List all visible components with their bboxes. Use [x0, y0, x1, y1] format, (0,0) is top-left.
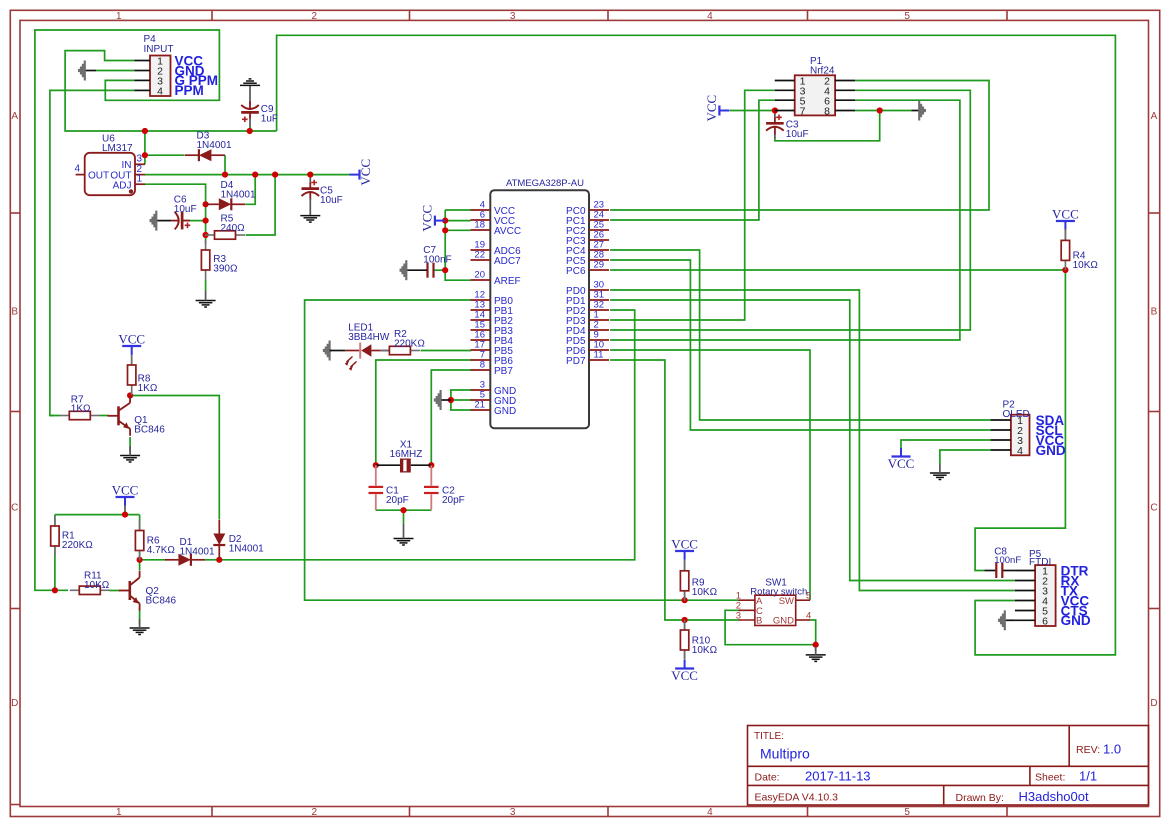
VCC flag at OUT rail — [350, 159, 374, 186]
capacitor C5 10uF — [302, 183, 320, 200]
wire PD7 to SW1 pin3 / R10 node — [610, 360, 738, 620]
resistor R7 1K — [60, 411, 100, 419]
svg-text:GND: GND — [494, 406, 516, 417]
wire Q2 VCC rail — [55, 514, 140, 516]
capacitor C2 20pF — [424, 465, 439, 510]
wire U6 OUT rail to VCC flag — [145, 174, 350, 176]
wire D3 anode down to OUT rail — [224, 155, 226, 174]
svg-text:20pF: 20pF — [442, 495, 465, 506]
wire GND pins 3-21 tie — [451, 390, 471, 410]
svg-text:VCC: VCC — [888, 456, 915, 471]
wire PD5 to P1 pin6 — [610, 100, 960, 340]
ground arrow at C7 — [401, 260, 407, 280]
diode D3 1N4001 (cathode left) — [185, 149, 225, 161]
svg-text:PC6: PC6 — [566, 266, 586, 277]
C8 plates — [996, 563, 1002, 578]
wire to pin6 — [445, 220, 470, 222]
frame zone numbers — [116, 11, 910, 818]
svg-text:16MHZ: 16MHZ — [390, 449, 423, 460]
wire P1 pin8 to ground arrow — [855, 110, 911, 112]
wire P4 pin3 G_PPM loop to R11/Q2 base node — [35, 30, 220, 590]
junction R1 bottom / Q2 base — [52, 587, 58, 593]
diode D1 1N4001 — [165, 554, 205, 566]
wire PB0 to SW1 A / R9 node — [305, 300, 739, 600]
svg-text:TITLE:: TITLE: — [754, 731, 784, 742]
svg-text:100nF: 100nF — [994, 555, 1021, 566]
svg-text:7: 7 — [800, 106, 806, 118]
wire C9 to VCC-in node — [249, 127, 251, 132]
svg-text:Date:: Date: — [755, 772, 780, 784]
resistor R3 390 — [201, 240, 209, 280]
junction R9 bottom / SW1 A — [682, 597, 688, 603]
svg-text:4: 4 — [1017, 445, 1023, 457]
svg-text:A: A — [1151, 111, 1158, 122]
VCC flag at chip left — [419, 205, 445, 232]
svg-text:VCC: VCC — [419, 205, 434, 232]
svg-text:1KΩ: 1KΩ — [138, 383, 158, 394]
svg-text:220KΩ: 220KΩ — [394, 339, 425, 350]
wire R5 right up to OUT rail — [246, 175, 276, 235]
LED LED1 3BB4HW — [331, 343, 389, 371]
svg-text:2017-11-13: 2017-11-13 — [805, 769, 871, 784]
junction R6/D1/Q2 collector — [137, 557, 143, 563]
VCC flag above Q2 rail — [112, 483, 139, 506]
svg-text:100nF: 100nF — [423, 255, 451, 266]
svg-text:1N4001: 1N4001 — [221, 189, 256, 200]
title block texts — [754, 731, 1121, 804]
junction R4 bottom / PC6 — [1062, 267, 1068, 273]
resistor R9 10K — [680, 561, 688, 601]
svg-text:PD7: PD7 — [566, 356, 586, 367]
ground arrow at P1 pin8 — [911, 110, 919, 112]
VCC flag below P2 pin3 — [888, 448, 915, 471]
svg-text:VCC: VCC — [358, 159, 373, 186]
MCU right pins — [566, 200, 609, 368]
wire PB5 to R2 — [421, 350, 472, 352]
resistor R1 220K — [51, 516, 59, 556]
resistor R8 1K — [128, 355, 136, 395]
junction U6 IN / P4 VCC — [142, 128, 148, 134]
ground under C5 — [300, 216, 320, 223]
junction C7/AREF — [442, 267, 448, 273]
wire VCC flag to P1 pin7 — [730, 110, 775, 112]
connector P1 Nrf24 — [775, 75, 855, 117]
svg-text:1uF: 1uF — [261, 114, 278, 125]
MCU left pins — [471, 200, 522, 418]
wire C7 to AREF vertical — [434, 269, 446, 271]
wire VCC-in top rail to P5 FTDI pin4 — [277, 35, 1116, 655]
ground arrow at P5 pin6 — [1005, 619, 1015, 621]
ground arrow at C6 — [151, 211, 157, 231]
svg-text:ADJ: ADJ — [113, 181, 132, 192]
capacitor C3 10uF — [766, 117, 784, 134]
svg-text:1KΩ: 1KΩ — [71, 404, 91, 415]
svg-text:PPM: PPM — [175, 83, 204, 98]
svg-text:3: 3 — [510, 11, 516, 22]
svg-text:10KΩ: 10KΩ — [692, 645, 718, 656]
svg-text:B: B — [11, 307, 18, 318]
wire PC1 to P1 pin5 — [610, 100, 775, 220]
wire P4 pin2 to ground arrow — [96, 70, 135, 72]
junction C5 on OUT — [307, 172, 313, 178]
svg-text:220KΩ: 220KΩ — [62, 540, 93, 551]
wire D3 cathode to IN — [145, 154, 185, 156]
svg-text:4: 4 — [75, 164, 81, 175]
svg-text:B: B — [1151, 307, 1158, 318]
VCC flag above R8 — [118, 332, 145, 355]
wire down to R1 — [54, 515, 56, 526]
wire GND pin5 — [451, 399, 471, 401]
svg-text:Nrf24: Nrf24 — [810, 66, 835, 77]
VCC flag above R4 — [1052, 207, 1079, 230]
svg-text:AVCC: AVCC — [494, 226, 521, 237]
ground under P2 pin4 — [930, 473, 950, 480]
svg-text:4: 4 — [707, 807, 713, 818]
connector P5 FTDI — [1015, 565, 1056, 627]
wire PC0 to P1 pin2 — [610, 81, 989, 211]
svg-text:5: 5 — [904, 807, 910, 818]
junction Q2 VCC rail — [122, 511, 128, 517]
svg-text:OUT: OUT — [88, 170, 109, 181]
wire ground node stem — [815, 645, 817, 651]
wire PB7 down to X1 right — [431, 370, 471, 465]
svg-text:8: 8 — [824, 106, 830, 118]
svg-text:1: 1 — [116, 807, 122, 818]
lead R10 to VCC flag (gray) — [684, 651, 686, 659]
wire R6 bottom to D1 node — [139, 552, 141, 560]
resistor R5 240 — [205, 231, 245, 239]
svg-text:D: D — [1150, 698, 1157, 709]
wire R3 bottom to ground — [205, 280, 207, 291]
svg-text:10KΩ: 10KΩ — [692, 587, 718, 598]
svg-text:20: 20 — [474, 270, 485, 281]
resistor R4 10K — [1061, 230, 1069, 270]
wire PD4 to P1 pin4 — [610, 90, 970, 330]
wire down to R6 — [139, 515, 141, 530]
lead VCC flag to R9 (gray) — [684, 560, 686, 571]
wire C6 to ADJ node — [182, 220, 206, 222]
wire U6 ADJ branch down to R3 — [145, 184, 206, 244]
resistor R6 4.7K — [135, 521, 143, 561]
junction Q1 collector — [127, 392, 133, 398]
wire P4 pin1 VCC-in loop to U6 IN node — [65, 51, 277, 131]
junction C9 — [247, 128, 253, 134]
svg-text:VCC: VCC — [112, 483, 139, 498]
ground arrow symbol P5 — [999, 610, 1005, 630]
svg-text:3: 3 — [510, 807, 516, 818]
junction R5 on OUT — [272, 172, 278, 178]
VCC flag at P1 pin7 — [704, 95, 730, 122]
junction D3 cathode — [142, 152, 148, 158]
svg-text:AREF: AREF — [494, 276, 521, 287]
lead VCC flag to R4 (gray) — [1064, 229, 1066, 240]
ground arrow at GND pins 3/5/21 — [441, 399, 451, 401]
capacitor C8 100nF — [984, 570, 996, 572]
wire PD1 to P5 RX — [610, 300, 1015, 581]
junction GND pins — [448, 397, 454, 403]
svg-text:18: 18 — [474, 220, 485, 231]
wire D1 cathode to D2 node — [204, 559, 219, 561]
svg-text:OLED: OLED — [1003, 409, 1030, 420]
svg-text:Rotary switch: Rotary switch — [750, 586, 807, 597]
svg-text:ADC7: ADC7 — [494, 256, 521, 267]
lead C3 bottom (gray) — [774, 134, 776, 140]
SW1 pin labels (red) — [736, 591, 812, 627]
junction C1-C2 ground — [400, 507, 406, 513]
svg-text:4: 4 — [806, 610, 811, 621]
svg-text:GND: GND — [1061, 613, 1091, 628]
frame zone letters — [11, 111, 1158, 709]
wire PC5 to P2 pin2 SCL — [610, 260, 991, 430]
C7 plates — [428, 263, 434, 278]
wire D1 anode from node — [140, 559, 166, 561]
junction SW1 ground — [813, 642, 819, 648]
lead C9 bottom (gray) — [249, 118, 251, 128]
resistor R2 220K — [380, 346, 420, 354]
ground arrow at P4 pin2 — [85, 70, 96, 72]
svg-text:B: B — [756, 616, 762, 627]
junction D4 on OUT — [252, 172, 258, 178]
svg-text:A: A — [11, 111, 18, 122]
junction D4 anode on ADJ — [203, 201, 209, 207]
wire Q1 emitter to ground — [129, 437, 131, 452]
svg-text:10uF: 10uF — [174, 204, 197, 215]
svg-text:240Ω: 240Ω — [221, 223, 246, 234]
svg-text:8: 8 — [480, 360, 485, 371]
ground arrow symbol GND pins — [435, 390, 441, 410]
wire D4 cathode up to OUT rail — [246, 175, 256, 205]
svg-text:1: 1 — [116, 11, 122, 22]
wire R1 bottom to base node — [54, 547, 56, 591]
svg-text:FTDI: FTDI — [1029, 557, 1051, 568]
wire AVCC/AREF vertical — [445, 210, 470, 280]
capacitor C1 20pF — [369, 465, 384, 510]
svg-text:10uF: 10uF — [320, 195, 343, 206]
wire PC4 to P2 pin1 SDA — [610, 250, 991, 420]
svg-text:GND: GND — [773, 616, 794, 627]
wire Q2 emitter to ground — [139, 608, 141, 624]
wire P2 pin3 to VCC flag — [901, 440, 991, 450]
lead C5 top (gray) — [309, 176, 311, 184]
svg-text:VCC: VCC — [704, 95, 719, 122]
wire PD0 to P5 TX — [610, 290, 1015, 591]
svg-text:390Ω: 390Ω — [213, 264, 238, 275]
svg-text:1N4001: 1N4001 — [229, 544, 264, 555]
svg-text:VCC: VCC — [1052, 207, 1079, 222]
U6 pin names and numbers — [75, 154, 143, 192]
svg-text:3BB4HW: 3BB4HW — [348, 332, 390, 343]
svg-text:ATMEGA328P-AU: ATMEGA328P-AU — [506, 178, 584, 189]
junction VCC flag at chip — [442, 218, 448, 224]
svg-text:LM317: LM317 — [102, 143, 133, 154]
junction R5/R3 on ADJ — [203, 232, 209, 238]
junction C6 on ADJ — [203, 218, 209, 224]
junction R10 top / SW1 B — [682, 617, 688, 623]
crystal X1 16MHZ — [376, 459, 432, 473]
connector P2 OLED — [991, 415, 1030, 458]
svg-text:VCC: VCC — [118, 332, 145, 347]
junction AVCC — [442, 227, 448, 233]
wire node down to Q2 collector — [139, 560, 141, 570]
svg-text:10uF: 10uF — [786, 129, 809, 140]
svg-text:INPUT: INPUT — [144, 44, 174, 55]
resistor R11 10K — [70, 586, 110, 594]
svg-text:GND: GND — [1036, 443, 1066, 458]
capacitor C9 1uF — [241, 101, 259, 118]
junction D3 anode on OUT — [222, 172, 228, 178]
resistor R10 10K — [680, 620, 688, 660]
wire D1/D2 node to PD2 — [219, 310, 634, 560]
junction C3 top — [772, 107, 778, 113]
capacitor C6 10uF (horizontal polarized) — [171, 212, 190, 230]
svg-text:3: 3 — [736, 610, 741, 621]
wire P4 pin4 PPM to R7 — [50, 90, 135, 415]
svg-text:1.0: 1.0 — [1103, 742, 1121, 757]
svg-text:H3adsho0ot: H3adsho0ot — [1019, 789, 1089, 804]
svg-text:VCC: VCC — [671, 537, 698, 552]
transistor Q1 BC846 — [108, 396, 131, 436]
ground under SW1 — [806, 655, 826, 662]
ground arrow symbol P4 — [79, 61, 85, 81]
svg-text:11: 11 — [594, 350, 604, 361]
MCU U? ATMEGA328P-AU body — [490, 190, 589, 428]
svg-text:Sheet:: Sheet: — [1035, 772, 1065, 784]
ground (inverted) above C9 — [240, 79, 260, 86]
wire U6 IN branch — [144, 131, 146, 164]
ground arrow symbol P1 — [919, 101, 925, 121]
junction X1 right / C2 — [428, 462, 434, 468]
svg-text:4: 4 — [707, 11, 713, 22]
wire C3 bottom loop to P1 pin8 node — [775, 111, 880, 141]
wire R11 to Q2 base — [110, 590, 120, 592]
svg-text:21: 21 — [474, 400, 485, 411]
svg-text:22: 22 — [474, 250, 485, 261]
ground under crystal — [394, 539, 414, 546]
wire SW1 pin2 loop to ground node — [725, 610, 816, 644]
svg-text:10KΩ: 10KΩ — [84, 580, 110, 591]
svg-text:REV:: REV: — [1076, 744, 1100, 756]
svg-text:1/1: 1/1 — [1079, 769, 1097, 784]
svg-text:10KΩ: 10KΩ — [1073, 260, 1099, 271]
svg-text:D: D — [11, 698, 18, 709]
ground under Q1 — [120, 456, 140, 463]
svg-text:BC846: BC846 — [134, 425, 165, 436]
junction C3 bottom loop — [877, 107, 883, 113]
svg-text:4: 4 — [157, 86, 163, 98]
lead C5 bottom (gray) — [309, 198, 311, 216]
junction X1 left / C1 — [373, 462, 379, 468]
lead VCC flag to R8 (gray) — [131, 354, 133, 366]
wire Q1 collector to D2 anode — [130, 396, 219, 520]
wire to pin18 — [445, 229, 470, 231]
svg-text:Multipro: Multipro — [760, 746, 810, 762]
VCC flag above R9 — [671, 537, 698, 560]
ground arrow symbol LED — [324, 341, 330, 361]
svg-text:4.7KΩ: 4.7KΩ — [147, 545, 176, 556]
svg-text:EasyEDA V4.10.3: EasyEDA V4.10.3 — [755, 792, 839, 804]
svg-text:C: C — [1150, 503, 1157, 514]
regulator U6 LM317 body — [76, 153, 145, 195]
svg-text:5: 5 — [904, 11, 910, 22]
svg-text:1: 1 — [137, 174, 143, 185]
svg-text:SW: SW — [779, 596, 794, 607]
diode D2 1N4001 (vertical) — [213, 520, 225, 559]
lead C3 top (gray) — [774, 111, 776, 118]
lead ground to C9 (gray) — [249, 85, 251, 104]
rotary switch SW1 body — [739, 595, 811, 625]
svg-text:2: 2 — [312, 807, 318, 818]
ground under R3 — [196, 301, 216, 308]
wire R9 bottom to node — [684, 591, 686, 600]
svg-text:Drawn By:: Drawn By: — [956, 792, 1004, 804]
svg-text:20pF: 20pF — [386, 495, 409, 506]
wire R7 corner stub — [50, 415, 54, 417]
wire SW1 pin4 down to ground node — [810, 620, 816, 645]
wire VCC vert to pin4 — [445, 209, 470, 211]
svg-text:C: C — [11, 503, 18, 514]
wire PC6 to R4 node — [610, 269, 1065, 271]
ground under Q2 — [130, 628, 150, 635]
svg-text:1N4001: 1N4001 — [197, 140, 232, 151]
svg-text:1N4001: 1N4001 — [180, 546, 215, 557]
wire PB6 down to X1 left — [376, 360, 472, 465]
wire P2 pin4 to ground — [940, 450, 991, 464]
wire R7 to Q1 base — [100, 415, 109, 417]
svg-text:2: 2 — [312, 11, 318, 22]
junction D1/D2 cathodes — [216, 557, 222, 563]
wire crystal ground stem — [403, 510, 405, 524]
wire C1 C2 bottoms joined — [376, 509, 432, 511]
wire R10 top to node — [684, 620, 686, 630]
svg-text:6: 6 — [1042, 616, 1048, 628]
lead VCC flag to Q2 rail (gray) — [124, 506, 126, 515]
title block — [748, 726, 1149, 806]
wire PD6 down to SW1 pin5 — [610, 350, 810, 600]
connector P4 INPUT — [135, 56, 171, 98]
wire PD3 to P1 pin3 — [610, 90, 775, 320]
svg-text:PB7: PB7 — [494, 366, 513, 377]
transistor Q2 BC846 — [119, 571, 140, 611]
wire R4 node down to C8 — [975, 270, 1065, 571]
svg-text:VCC: VCC — [671, 668, 698, 683]
svg-text:BC846: BC846 — [146, 596, 177, 607]
VCC flag below R10 — [671, 660, 698, 683]
diode D4 1N4001 — [205, 198, 245, 210]
svg-text:29: 29 — [594, 260, 605, 271]
